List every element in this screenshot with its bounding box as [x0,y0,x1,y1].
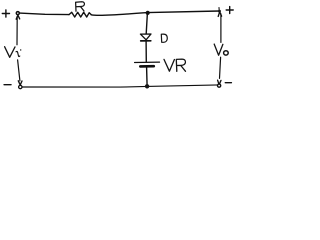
Vo arrow up (top-right) [218,12,221,17]
Vo arrow down (bottom-right) [220,57,221,78]
node B junction dot [145,84,149,88]
wire diode branch upper [146,13,147,34]
minus sign input [4,84,11,86]
output terminal top-right [218,10,221,13]
wire diode to VR [145,42,147,62]
wire bottom [22,85,219,87]
wire VR to node B [146,68,149,87]
plus sign output [226,7,233,14]
label R [76,2,85,11]
node A junction dot [146,11,150,15]
input terminal bottom-left [19,85,22,88]
label VR [164,59,186,71]
wire resistor to node A [91,13,147,16]
label Vi [5,47,15,58]
wire overshoot tick top-right [218,8,220,11]
wire node A to output top [148,11,220,13]
label Vo [214,44,223,55]
plus sign input [2,10,9,17]
output terminal bottom-right [218,84,221,87]
diode D [140,34,151,40]
Vi arrow up (top-left) [16,15,20,19]
wire top-left [20,13,69,15]
minus sign output [225,82,231,84]
input terminal top-left [16,12,19,15]
Vi arrow down (bottom-left) [18,60,20,81]
resistor R [69,12,91,17]
label D [161,34,167,42]
voltage reference battery VR [135,61,160,63]
